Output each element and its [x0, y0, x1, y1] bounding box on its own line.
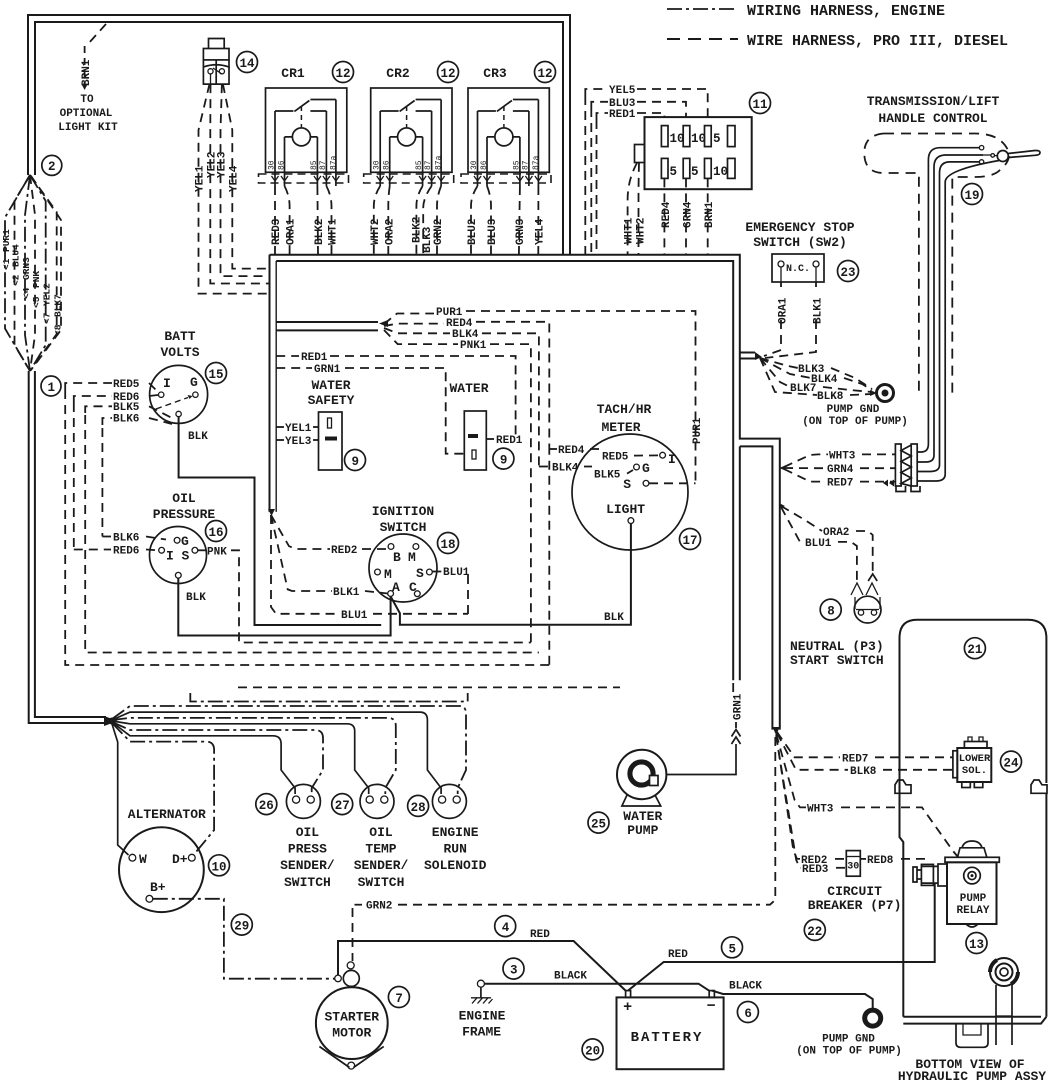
svg-text:BLU4: BLU4: [11, 244, 22, 267]
node: circle 3: [503, 958, 524, 979]
svg-text:PRESS: PRESS: [288, 841, 327, 856]
wires below CR1: RED3 ORA1 BLK2 WHT1: [271, 186, 340, 254]
node: circle 13: [966, 933, 987, 954]
wire dashed return y687: [238, 686, 620, 688]
svg-text:RED1: RED1: [301, 352, 328, 364]
svg-text:BLU3: BLU3: [487, 218, 499, 245]
svg-text:STARTER: STARTER: [324, 1010, 379, 1025]
wire BLK3: [760, 358, 872, 389]
wire BLU1 (ignition S): [271, 515, 470, 622]
svg-text:CIRCUIT: CIRCUIT: [827, 884, 882, 899]
svg-text:<2: <2: [11, 274, 22, 286]
switch: WATER (item 9): [449, 381, 488, 470]
junction: right channel end: [772, 727, 779, 735]
svg-text:RED7: RED7: [827, 478, 853, 490]
node: fan point on channel: [779, 503, 785, 509]
junction: main harness junction (left bottom): [104, 716, 118, 726]
node: circle 8: [820, 599, 841, 620]
node: circle 28: [408, 795, 429, 816]
node: circle 4: [495, 916, 516, 937]
svg-text:BRN1: BRN1: [81, 59, 93, 86]
svg-text:BREAKER (P7): BREAKER (P7): [808, 898, 902, 913]
svg-text:BLU1: BLU1: [805, 538, 832, 550]
wire WHT3 (to handle connector): [784, 450, 895, 467]
svg-text:BLK8: BLK8: [850, 766, 877, 778]
svg-text:VOLTS: VOLTS: [160, 345, 199, 360]
svg-text:BLK1: BLK1: [813, 297, 825, 324]
svg-text:SOL.: SOL.: [962, 765, 987, 777]
wire: harness to oil press right (dash-dot): [112, 722, 323, 794]
svg-text:RED8: RED8: [867, 855, 894, 867]
svg-text:WHT3: WHT3: [829, 450, 856, 462]
svg-text:CR2: CR2: [386, 66, 410, 81]
svg-text:RUN: RUN: [443, 841, 466, 856]
svg-text:IGNITION: IGNITION: [372, 504, 434, 519]
wire BLK6 (batt volts): [102, 414, 172, 537]
node: arrow into box right channel: [779, 465, 788, 472]
node: circle 15: [206, 363, 227, 384]
wire: top border harness double line (item 2 run): [28, 15, 570, 254]
svg-text:OIL: OIL: [369, 825, 393, 840]
label: TO OPTIONAL LIGHT KIT: [58, 94, 118, 134]
svg-text:B: B: [393, 550, 401, 565]
svg-text:BLK6: BLK6: [113, 533, 139, 545]
svg-text:<7: <7: [42, 312, 53, 324]
wires below CR2: WHT2 ORA2 BLK2 BLK3 GRN2: [370, 186, 445, 254]
wire: harness to alternator D+ (dash-dot): [112, 723, 214, 852]
svg-text:28: 28: [411, 801, 426, 815]
svg-text:RED2: RED2: [331, 545, 357, 557]
svg-text:BLK4: BLK4: [552, 463, 579, 475]
svg-text:S: S: [182, 549, 190, 564]
svg-text:SENDER/: SENDER/: [280, 858, 335, 873]
motor: WATER PUMP (item 25): [617, 750, 666, 838]
wire BLK4 (pump gnd): [760, 358, 872, 390]
wire GRN2 (long run to starter): [353, 737, 776, 961]
svg-text:5: 5: [670, 165, 678, 179]
connector item 14: [203, 39, 229, 85]
svg-text:BATT: BATT: [164, 329, 195, 344]
node: circle 20: [582, 1039, 603, 1060]
svg-text:8: 8: [827, 605, 835, 619]
svg-text:WATER: WATER: [449, 381, 488, 396]
wires WHT1 WHT2 below fuse block tab: [624, 163, 648, 254]
wire: harness to alternator W (solid): [112, 724, 129, 855]
node: circle 11: [750, 93, 771, 114]
wire item 29 (B+ to starter, dash-dot): [153, 899, 335, 979]
wire BLU3: [591, 98, 686, 254]
svg-text:21: 21: [967, 643, 982, 657]
wire RED1 (upper): [276, 352, 515, 439]
svg-text:START SWITCH: START SWITCH: [790, 653, 884, 668]
label: BOTTOM VIEW OF HYDRAULIC PUMP ASSY: [898, 1057, 1046, 1082]
gauge: OIL PRESSURE (item 16): [150, 491, 216, 604]
svg-text:WIRING HARNESS, ENGINE: WIRING HARNESS, ENGINE: [747, 3, 945, 20]
wire BLK from tach light: [391, 524, 631, 625]
wire BLK1 (ignition): [271, 515, 388, 599]
svg-text:14: 14: [240, 57, 256, 71]
svg-text:RED: RED: [668, 949, 688, 961]
svg-text:G: G: [181, 534, 189, 549]
node: circle 12 (CR2): [438, 62, 459, 83]
relay CR2: [364, 66, 454, 186]
svg-text:+: +: [623, 999, 632, 1016]
svg-text:METER: METER: [601, 420, 640, 435]
wire BLK4/BLK5 stub to tach G: [539, 463, 633, 482]
svg-text:M: M: [384, 567, 392, 582]
svg-text:NEUTRAL (P3): NEUTRAL (P3): [790, 639, 884, 654]
svg-text:CR3: CR3: [483, 66, 507, 81]
node: circle 7: [388, 987, 409, 1008]
svg-text:30: 30: [847, 862, 859, 873]
svg-text:YEL4: YEL4: [534, 218, 546, 245]
svg-text:G: G: [642, 461, 650, 476]
svg-text:WATER: WATER: [623, 809, 662, 824]
svg-text:16: 16: [209, 526, 224, 540]
svg-text:BLK6: BLK6: [113, 414, 139, 426]
svg-text:M: M: [408, 550, 416, 565]
svg-text:BLK2: BLK2: [314, 219, 326, 245]
svg-text:TRANSMISSION/LIFT: TRANSMISSION/LIFT: [867, 94, 1000, 109]
wires YEL1-YEL4 from connector 14 to box: [195, 84, 270, 294]
node: circle 26: [256, 794, 277, 815]
svg-text:BLU2: BLU2: [467, 219, 479, 245]
node: circle 2: [42, 155, 62, 175]
svg-text:12: 12: [538, 67, 553, 81]
node: circle 27: [332, 794, 353, 815]
wire BRN1 to optional light kit: [81, 24, 106, 90]
wire stub into box arrow + PUR1/RED4/BLK4/PNK1 fan: [276, 320, 388, 330]
svg-text:WHT2: WHT2: [370, 219, 382, 245]
node: circle 18: [438, 533, 459, 554]
svg-text:BLK5: BLK5: [113, 402, 140, 414]
svg-text:15: 15: [209, 368, 224, 382]
svg-text:OIL: OIL: [296, 825, 320, 840]
node: circle 5: [722, 937, 743, 958]
svg-text:GRN4: GRN4: [827, 464, 854, 476]
svg-text:I: I: [166, 549, 174, 564]
wire BLK5 (batt volts): [85, 402, 539, 653]
node: circle 24: [1001, 751, 1022, 772]
wire BLK7: [760, 358, 872, 395]
svg-text:S: S: [416, 566, 424, 581]
wire dash-dot return (engine harness): [190, 693, 467, 702]
svg-text:SWITCH: SWITCH: [358, 875, 405, 890]
wires RED4 GRN4 BRN1 below fuses: [661, 178, 716, 254]
svg-text:ALTERNATOR: ALTERNATOR: [128, 807, 206, 822]
wire RED4 (fan): [384, 318, 549, 449]
wire RED1 (to fuse): [597, 109, 665, 254]
node: circle 14: [237, 52, 258, 73]
switch: WATER SAFETY (item 9): [308, 378, 355, 470]
svg-text:RED4: RED4: [558, 445, 585, 457]
svg-text:GRN2: GRN2: [433, 219, 445, 245]
svg-text:13: 13: [969, 938, 984, 952]
wire BLK oil pressure (solid): [178, 578, 390, 635]
svg-text:TO: TO: [80, 94, 94, 106]
svg-text:3: 3: [510, 964, 518, 978]
pump assy bolt and pipe details: [956, 958, 1018, 1047]
wire BLK8 (pump gnd): [760, 358, 872, 403]
svg-text:25: 25: [591, 818, 606, 832]
node: circle 6: [737, 1002, 758, 1023]
central hub box outline: [268, 255, 780, 730]
svg-text:5: 5: [713, 132, 721, 146]
node: circle 17: [680, 529, 701, 550]
svg-text:BLK: BLK: [186, 592, 206, 604]
svg-text:26: 26: [259, 799, 274, 813]
svg-text:SWITCH: SWITCH: [284, 875, 331, 890]
relay CR1: [259, 66, 349, 186]
wire RED (item 4) starter to battery +: [338, 929, 626, 991]
wire: harness to engine run solenoid left (solid): [112, 712, 441, 794]
wire: left harness double line down to junction: [29, 371, 106, 723]
wire RED7 (to handle connector): [784, 469, 895, 490]
svg-text:PUMP: PUMP: [960, 893, 987, 905]
motor: STARTER MOTOR (item 7): [316, 962, 388, 1069]
svg-text:N.C.: N.C.: [786, 264, 810, 275]
svg-text:D+: D+: [172, 852, 188, 867]
wire BLACK (item 6) battery - to pump gnd: [712, 981, 873, 1010]
svg-text:BLK: BLK: [188, 431, 208, 443]
wire RED1 stub (water): [486, 435, 523, 447]
svg-text:7: 7: [395, 992, 403, 1006]
wire BLK batt volts (solid): [179, 417, 382, 625]
breaker: CIRCUIT BREAKER (P7) item 22: [808, 851, 902, 913]
wire: box exit to pump-gnd junction: [740, 352, 762, 360]
svg-text:LIGHT: LIGHT: [606, 502, 645, 517]
svg-text:PNK: PNK: [207, 546, 227, 558]
svg-text:BLU1: BLU1: [341, 610, 368, 622]
svg-text:2: 2: [48, 160, 56, 174]
wire RED4/RED5 stub to tach I: [549, 445, 659, 464]
wire: harness to oil temp right (dash-dot): [112, 718, 396, 794]
svg-text:GRN2: GRN2: [366, 901, 392, 913]
wires below CR3: BLU2 BLU3 GRN3 YEL4: [467, 186, 546, 254]
svg-text:(ON TOP OF PUMP): (ON TOP OF PUMP): [802, 416, 908, 428]
svg-text:11: 11: [753, 98, 768, 112]
svg-text:LOWER: LOWER: [959, 753, 991, 765]
svg-text:BRN1: BRN1: [704, 201, 716, 228]
svg-text:SAFETY: SAFETY: [308, 393, 355, 408]
svg-text:GRN1: GRN1: [733, 693, 745, 720]
svg-text:YEL5: YEL5: [609, 85, 636, 97]
svg-text:PUMP GND: PUMP GND: [822, 1034, 875, 1046]
svg-text:C: C: [409, 580, 417, 595]
node: circle 22: [804, 919, 825, 940]
wire RED3 (circuit breaker): [776, 736, 846, 876]
svg-text:BLACK: BLACK: [554, 971, 587, 983]
svg-text:BATTERY: BATTERY: [631, 1030, 704, 1046]
svg-text:RELAY: RELAY: [956, 905, 989, 917]
svg-text:YEL3: YEL3: [217, 151, 229, 178]
svg-text:BLACK: BLACK: [729, 981, 762, 993]
relay: PUMP RELAY (item 13): [913, 841, 999, 927]
svg-text:CR1: CR1: [281, 66, 305, 81]
svg-text:ENGINE: ENGINE: [432, 825, 479, 840]
svg-text:BLK8: BLK8: [817, 391, 844, 403]
svg-text:BLK5: BLK5: [594, 470, 621, 482]
svg-text:GRN4: GRN4: [683, 201, 695, 228]
node: circle 19: [962, 184, 983, 205]
svg-text:10: 10: [713, 165, 728, 179]
svg-text:17: 17: [683, 534, 698, 548]
wire RED5 (batt volts): [65, 379, 549, 665]
legend: wire harness pro III diesel (dashed): [667, 33, 1008, 50]
svg-text:RED: RED: [530, 929, 550, 941]
svg-text:HANDLE CONTROL: HANDLE CONTROL: [878, 111, 987, 126]
svg-text:WHT2: WHT2: [636, 218, 648, 244]
svg-text:YEL3: YEL3: [285, 436, 312, 448]
wire BLACK (item 3) engine frame to battery -: [484, 971, 709, 991]
svg-text:24: 24: [1004, 757, 1020, 771]
svg-text:WHT3: WHT3: [807, 803, 834, 815]
svg-text:LIGHT KIT: LIGHT KIT: [58, 122, 118, 134]
svg-text:23: 23: [841, 266, 856, 280]
wire YEL1 stub: [276, 423, 318, 435]
svg-text:1: 1: [48, 381, 56, 395]
node: circle 16: [206, 521, 227, 542]
node: circle 23: [838, 261, 859, 282]
svg-text:<8: <8: [53, 324, 64, 336]
wire RED (item 5) battery + to pump relay: [628, 883, 935, 991]
harness bundle lens between node 2 and node 1: [1, 175, 64, 371]
wire RED2: [271, 515, 388, 557]
svg-text:SWITCH (SW2): SWITCH (SW2): [753, 235, 847, 250]
svg-text:RED3: RED3: [271, 218, 283, 245]
wire WHT3 (pump relay): [776, 734, 958, 857]
svg-text:WHT1: WHT1: [328, 218, 340, 245]
svg-text:5: 5: [729, 942, 737, 956]
svg-text:RED7: RED7: [842, 753, 868, 765]
svg-text:10: 10: [212, 860, 227, 874]
svg-text:(ON TOP OF PUMP): (ON TOP OF PUMP): [796, 1045, 902, 1057]
fuse block item 11: [635, 117, 752, 189]
svg-text:RED6: RED6: [113, 546, 139, 558]
svg-text:TACH/HR: TACH/HR: [597, 402, 652, 417]
wire GRN1 (upper): [276, 364, 464, 454]
connector: hatched harness connector: [883, 444, 920, 492]
svg-text:RED5: RED5: [602, 452, 629, 464]
wire RED8: [860, 855, 925, 867]
wire PUR1: [384, 307, 704, 483]
wire BLK8 (lower sol): [777, 733, 953, 778]
svg-text:S: S: [623, 477, 631, 492]
svg-text:WHT1: WHT1: [624, 217, 636, 244]
node: circle 21: [964, 638, 985, 659]
wire GRN1 (channel bottom to water pump): [666, 683, 745, 775]
ground: ENGINE FRAME (item 3): [459, 980, 506, 1039]
svg-text:I: I: [668, 452, 676, 467]
ground: PUMP GND (on top of pump) bottom: [796, 1010, 902, 1057]
component: TRANSMISSION/LIFT HANDLE CONTROL (item 19): [864, 94, 1040, 397]
svg-text:WATER: WATER: [311, 378, 350, 393]
svg-text:SWITCH: SWITCH: [380, 520, 427, 535]
svg-text:BLK7: BLK7: [53, 294, 64, 317]
pump assembly body (item 21, bottom view of hydraulic pump assy): [895, 620, 1047, 1024]
ground: PUMP GND (on top of pump): [802, 385, 908, 429]
svg-text:18: 18: [441, 538, 456, 552]
svg-text:9: 9: [500, 454, 508, 468]
wires: handle control cables (solid): [917, 148, 999, 481]
svg-text:PNK1: PNK1: [460, 340, 487, 352]
svg-text:HYDRAULIC PUMP ASSY: HYDRAULIC PUMP ASSY: [898, 1069, 1046, 1082]
svg-text:OIL: OIL: [172, 491, 196, 506]
svg-text:OPTIONAL: OPTIONAL: [60, 108, 113, 120]
legend: wiring harness engine (dash-dot): [667, 3, 945, 20]
gauge: TACH/HR METER (item 17): [572, 402, 688, 550]
svg-text:27: 27: [335, 799, 350, 813]
svg-text:FRAME: FRAME: [462, 1025, 501, 1040]
svg-text:<1: <1: [1, 258, 12, 270]
svg-text:RED1: RED1: [609, 109, 636, 121]
svg-text:PUMP GND: PUMP GND: [827, 404, 880, 416]
svg-text:SOLENOID: SOLENOID: [424, 858, 487, 873]
node: circle 9 (water safety): [345, 450, 366, 471]
svg-text:ORA1: ORA1: [778, 297, 790, 324]
svg-text:RED4: RED4: [661, 201, 673, 228]
svg-text:19: 19: [965, 189, 980, 203]
sender: OIL TEMP SENDER/SWITCH (item 27): [354, 784, 409, 890]
svg-text:4: 4: [502, 921, 510, 935]
switch: NEUTRAL (P3) START SWITCH (item 8): [790, 583, 884, 668]
wire RED6 (oil pressure): [74, 546, 158, 558]
wire YEL3 stub: [276, 436, 318, 448]
wire: harness to oil temp left (solid): [112, 721, 369, 794]
wire GRN4 (to handle connector): [784, 464, 895, 476]
svg-text:YEL2: YEL2: [42, 283, 53, 306]
svg-text:W: W: [139, 852, 147, 867]
svg-text:I: I: [163, 376, 171, 391]
wire PNK1 (fan): [384, 330, 531, 643]
wire BLK1 (emergency stop): [765, 282, 825, 358]
svg-text:MOTOR: MOTOR: [332, 1026, 371, 1041]
svg-text:20: 20: [585, 1044, 600, 1058]
wire BLU1 (neutral switch): [781, 507, 857, 581]
svg-text:RED5: RED5: [113, 379, 140, 391]
gauge: BATT VOLTS (item 15): [150, 329, 209, 443]
svg-text:BLK: BLK: [604, 612, 624, 624]
solenoid: LOWER SOL (item 24): [953, 737, 991, 788]
wire ORA2: [781, 506, 877, 581]
svg-text:EMERGENCY STOP: EMERGENCY STOP: [745, 220, 854, 235]
wire RED7 (lower sol): [777, 732, 953, 765]
wire ORA1: [764, 282, 790, 356]
alternator (item 10): [119, 807, 206, 912]
svg-text:PRESSURE: PRESSURE: [153, 507, 216, 522]
node: circle 12 (CR3): [535, 62, 556, 83]
svg-text:BLK1: BLK1: [333, 587, 360, 599]
svg-text:YEL1: YEL1: [195, 165, 207, 192]
svg-text:WIRE HARNESS, PRO III, DIESEL: WIRE HARNESS, PRO III, DIESEL: [747, 33, 1008, 50]
node: circle 12 (CR1): [333, 62, 354, 83]
svg-text:YEL4: YEL4: [228, 165, 240, 192]
battery (item 20): [617, 991, 724, 1070]
svg-text:22: 22: [807, 925, 822, 939]
svg-text:ORA2: ORA2: [384, 219, 396, 245]
svg-text:5: 5: [691, 165, 699, 179]
svg-text:10: 10: [670, 132, 685, 146]
svg-text:RED1: RED1: [496, 435, 523, 447]
svg-text:YEL1: YEL1: [285, 423, 312, 435]
svg-text:29: 29: [234, 920, 249, 934]
svg-text:PUR1: PUR1: [692, 417, 704, 444]
node: circle 29: [231, 914, 252, 935]
svg-text:12: 12: [441, 67, 456, 81]
wire: harness to engine run solenoid right (dash-dot): [112, 706, 466, 794]
svg-text:PUMP: PUMP: [627, 823, 658, 838]
wire RED2 (circuit breaker): [776, 735, 846, 867]
